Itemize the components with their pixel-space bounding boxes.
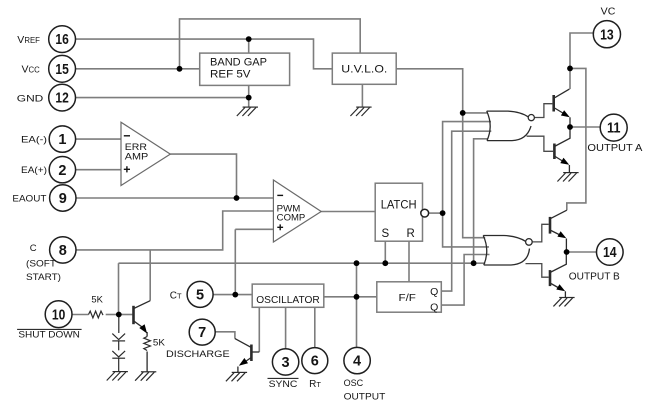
- svg-text:8: 8: [59, 243, 67, 259]
- svg-text:RT: RT: [309, 379, 321, 390]
- svg-text:GND: GND: [17, 93, 44, 104]
- svg-text:S: S: [381, 228, 389, 240]
- svg-text:(SOFT: (SOFT: [26, 259, 56, 270]
- svg-text:2: 2: [58, 163, 66, 179]
- svg-text:SYNC: SYNC: [269, 379, 298, 390]
- svg-text:DISCHARGE: DISCHARGE: [166, 349, 230, 360]
- svg-text:3: 3: [282, 355, 290, 371]
- svg-text:OSC: OSC: [344, 378, 364, 389]
- svg-text:5K: 5K: [91, 295, 103, 306]
- svg-text:OUTPUT B: OUTPUT B: [569, 272, 620, 283]
- svg-text:EAOUT: EAOUT: [12, 194, 46, 205]
- svg-text:5: 5: [196, 288, 204, 304]
- svg-text:9: 9: [59, 191, 67, 207]
- svg-text:C: C: [30, 243, 37, 254]
- svg-text:13: 13: [600, 27, 614, 43]
- svg-text:Q: Q: [430, 301, 438, 313]
- svg-text:12: 12: [55, 91, 68, 107]
- svg-text:CT: CT: [170, 290, 182, 301]
- svg-text:REF 5V: REF 5V: [210, 69, 251, 81]
- svg-text:15: 15: [55, 62, 68, 78]
- svg-text:VC: VC: [601, 6, 616, 18]
- svg-text:COMP: COMP: [277, 213, 306, 223]
- svg-text:START): START): [26, 272, 61, 283]
- svg-text:VREF: VREF: [17, 34, 40, 46]
- svg-text:11: 11: [607, 121, 621, 137]
- svg-text:14: 14: [603, 245, 617, 261]
- svg-text:LATCH: LATCH: [381, 199, 417, 211]
- svg-text:BAND GAP: BAND GAP: [210, 56, 267, 68]
- svg-text:OSCILLATOR: OSCILLATOR: [256, 295, 320, 306]
- svg-text:SHUT DOWN: SHUT DOWN: [18, 329, 80, 340]
- svg-text:6: 6: [311, 354, 319, 370]
- svg-text:OUTPUT A: OUTPUT A: [587, 143, 642, 154]
- svg-text:5K: 5K: [153, 338, 166, 349]
- svg-text:VCC: VCC: [22, 64, 41, 76]
- svg-text:1: 1: [58, 132, 66, 148]
- svg-text:4: 4: [353, 354, 361, 370]
- svg-text:10: 10: [52, 307, 65, 323]
- svg-text:EA(-): EA(-): [21, 135, 47, 146]
- svg-text:U.V.L.O.: U.V.L.O.: [341, 63, 387, 75]
- svg-text:R: R: [407, 228, 415, 240]
- svg-text:16: 16: [55, 32, 68, 48]
- svg-text:OUTPUT: OUTPUT: [344, 391, 386, 402]
- svg-text:AMP: AMP: [125, 152, 149, 163]
- svg-text:EA(+): EA(+): [21, 165, 47, 176]
- svg-text:F/F: F/F: [399, 292, 416, 304]
- svg-text:7: 7: [198, 325, 206, 341]
- svg-text:Q: Q: [430, 286, 438, 298]
